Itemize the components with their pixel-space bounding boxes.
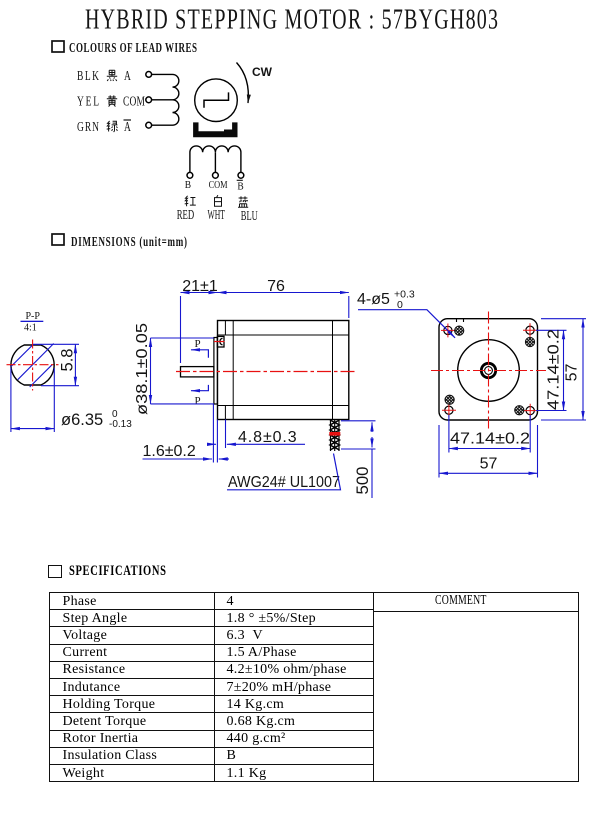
dim 1.6±0.2 <box>143 404 230 463</box>
CW arrow <box>237 63 249 104</box>
glyph hei (black) <box>107 70 117 81</box>
mounting hole TR <box>523 323 537 337</box>
label AWG24# UL1007 <box>227 454 341 492</box>
shaft centerline <box>176 371 356 373</box>
screw head TL <box>455 326 464 335</box>
pilot boss circle <box>458 340 520 402</box>
svg-text:47.14±0.2: 47.14±0.2 <box>546 329 563 410</box>
centerline vertical <box>32 340 34 391</box>
svg-text:57: 57 <box>480 455 498 472</box>
motor body outline <box>218 321 349 420</box>
terminal B-bar <box>238 172 244 178</box>
svg-text:P: P <box>195 338 201 350</box>
label GRN green A-bar <box>77 118 131 134</box>
screw head BR <box>515 406 524 415</box>
svg-text:ø6.35: ø6.35 <box>61 411 103 429</box>
section heading: colours of lead wires <box>52 39 197 56</box>
svg-text:4:1: 4:1 <box>24 323 37 334</box>
face corner ticks <box>457 319 464 322</box>
stator yoke bracket <box>193 122 237 137</box>
dim 21±1 <box>181 293 218 364</box>
screw head BL <box>445 395 454 404</box>
terminal A-bar <box>146 122 152 128</box>
section mark P upper <box>191 338 208 358</box>
boss key detail <box>217 336 224 347</box>
dim 76 <box>218 293 349 319</box>
boss red tick <box>214 341 225 343</box>
wire COM tap <box>152 99 173 101</box>
glyph lan (blue) <box>238 196 248 207</box>
svg-text:P-P: P-P <box>26 311 41 322</box>
screw head TR <box>525 337 534 346</box>
label B-bar <box>237 180 244 193</box>
terminal B <box>187 172 193 178</box>
winding B coil <box>190 146 241 172</box>
label YEL yellow COM <box>77 93 145 109</box>
svg-text:500: 500 <box>354 467 372 495</box>
shaft section outline <box>11 345 54 385</box>
mounting hole BR <box>523 404 537 418</box>
terminal COM(A) <box>146 97 152 103</box>
label BLK black A <box>77 67 131 83</box>
front face outline <box>439 319 538 420</box>
svg-text:47.14±0.2: 47.14±0.2 <box>450 430 530 447</box>
hatch lines <box>11 344 54 388</box>
svg-text:21±1: 21±1 <box>182 278 218 295</box>
dim 4.8±0.3 <box>209 420 305 449</box>
dim 57 vertical <box>541 319 586 420</box>
wire COM(B) tap <box>214 152 216 172</box>
label P-P 4:1 <box>21 311 44 334</box>
dim dia38.1 <box>151 338 214 404</box>
dim 47.14 horizontal <box>449 415 530 453</box>
svg-text:57: 57 <box>564 364 581 382</box>
svg-text:ø38.1±0.05: ø38.1±0.05 <box>134 323 151 415</box>
svg-text:AWG24# UL1007: AWG24# UL1007 <box>228 474 340 491</box>
svg-text:76: 76 <box>267 278 285 295</box>
svg-text:-0.13: -0.13 <box>109 419 132 430</box>
wire bundle red band <box>329 432 340 436</box>
lead wire bundle <box>330 420 340 451</box>
shaft bearing ring <box>481 363 495 377</box>
motor shaft <box>181 367 214 377</box>
glyph huang (yellow) <box>107 95 117 106</box>
svg-text:P: P <box>195 395 201 407</box>
section mark P lower <box>191 385 208 407</box>
rotor circle <box>195 79 238 122</box>
svg-text:4.8±0.3: 4.8±0.3 <box>238 429 298 446</box>
face centerlines <box>431 312 546 430</box>
dim 57 horizontal <box>439 425 538 478</box>
section heading: dimensions <box>52 233 187 250</box>
section heading: specifications <box>48 562 167 580</box>
glyph hong (red) <box>185 196 196 207</box>
svg-text:1.6±0.2: 1.6±0.2 <box>143 443 196 460</box>
glyph bai (white) <box>215 195 222 206</box>
centerline horizontal <box>7 364 59 366</box>
specifications table <box>49 592 579 782</box>
svg-text:4-ø5: 4-ø5 <box>357 291 390 308</box>
svg-text:5.8: 5.8 <box>59 349 77 372</box>
mounting hole TL <box>441 324 455 338</box>
dim 500 <box>341 421 376 498</box>
terminal A <box>146 72 152 78</box>
dim 5.8 <box>33 344 79 385</box>
winding A coil <box>152 74 179 125</box>
rotor step symbol <box>204 92 229 107</box>
glyph lv (green) <box>107 121 118 132</box>
label 4-dia5 <box>357 289 455 338</box>
terminal COM(B) <box>213 172 219 178</box>
mounting hole BL <box>442 403 456 417</box>
front boss plate <box>214 338 218 405</box>
body inner lines <box>218 321 349 420</box>
shaft circle <box>485 367 493 375</box>
dim dia 6.35 <box>11 368 54 432</box>
dim 47.14 vertical <box>536 330 567 410</box>
